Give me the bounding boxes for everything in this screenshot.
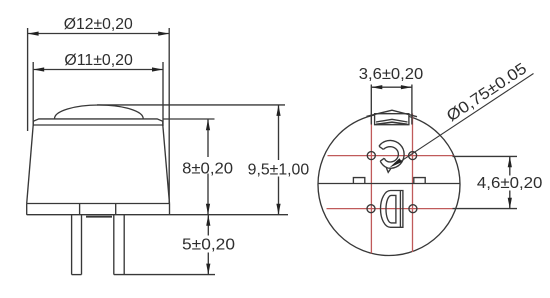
- svg-text:Ø12±0,20: Ø12±0,20: [64, 16, 133, 33]
- svg-text:Ø11±0,20: Ø11±0,20: [64, 52, 133, 69]
- svg-text:3,6±0,20: 3,6±0,20: [359, 66, 424, 83]
- svg-text:4,6±0,20: 4,6±0,20: [477, 175, 543, 192]
- svg-text:9,5±1,00: 9,5±1,00: [248, 162, 310, 179]
- svg-text:8±0,20: 8±0,20: [182, 160, 233, 177]
- svg-text:Ø0,75±0.05: Ø0,75±0.05: [444, 60, 530, 125]
- svg-text:5±0,20: 5±0,20: [182, 237, 235, 254]
